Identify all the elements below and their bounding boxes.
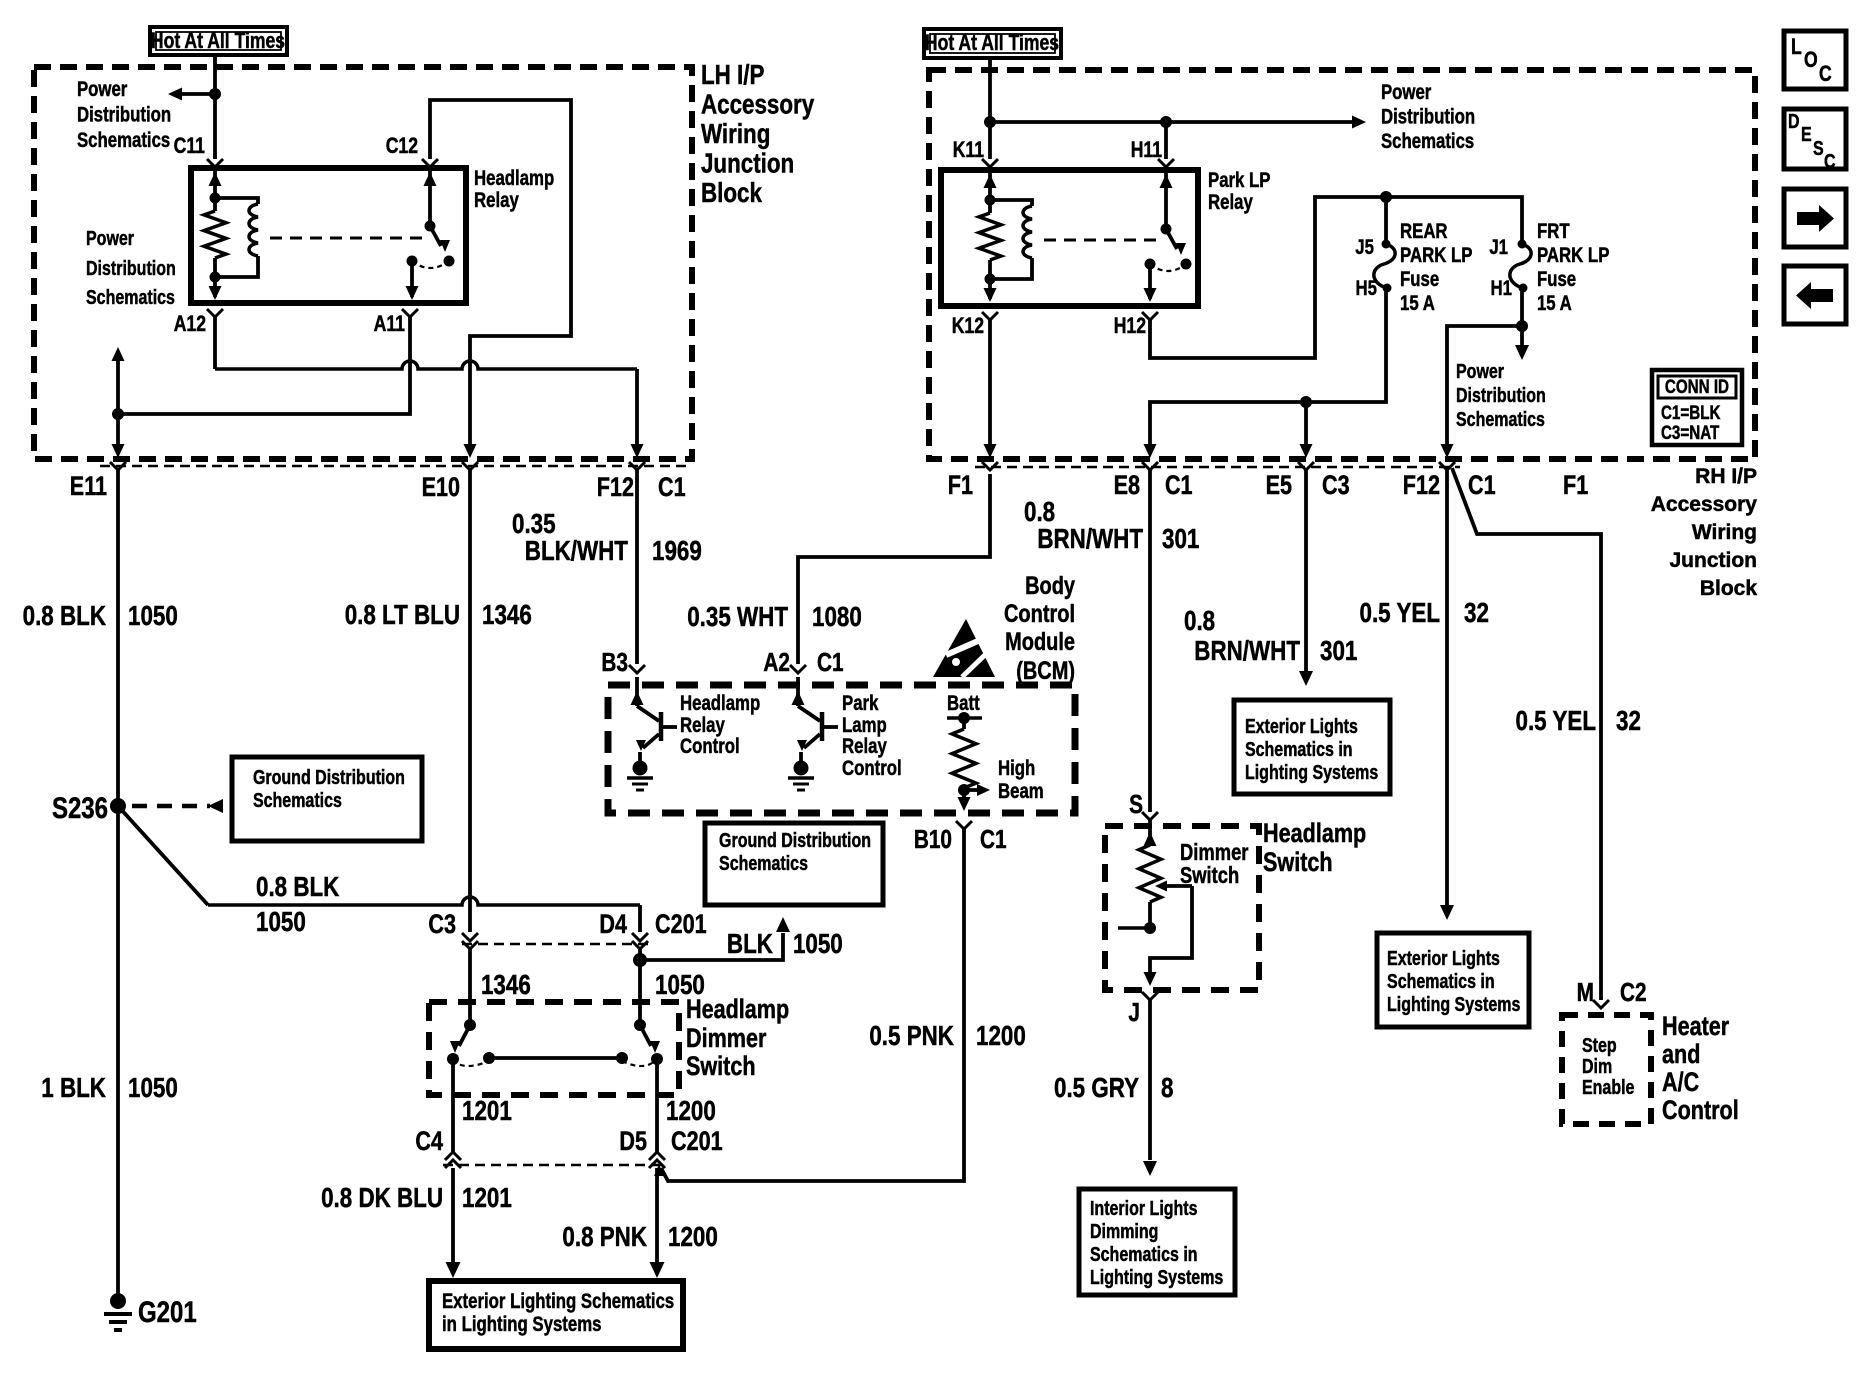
wire label BLK 1050 (D4 branch) xyxy=(727,929,843,960)
reference box Ground Distribution Schematics (middle) xyxy=(705,823,883,905)
pin label C4 xyxy=(415,1127,443,1157)
dimmer rheostat wire with up arrow xyxy=(1144,820,1157,846)
pin label H1 xyxy=(1491,277,1513,300)
wire label 1050 (S236 run) xyxy=(256,907,306,938)
svg-text:Ground Distribution: Ground Distribution xyxy=(719,829,871,851)
pin label C201 (lower) xyxy=(671,1127,723,1157)
svg-text:(BCM): (BCM) xyxy=(1016,657,1075,685)
svg-text:B3: B3 xyxy=(601,648,628,677)
fuse FRT PARK LP 15A xyxy=(1510,240,1531,293)
fuse REAR PARK LP 15A xyxy=(1374,240,1395,293)
svg-text:C201: C201 xyxy=(655,910,707,940)
text Power Distribution Schematics (top LH) xyxy=(77,78,171,152)
text Headlamp Relay Control xyxy=(680,692,760,758)
svg-text:BLK/WHT: BLK/WHT xyxy=(525,536,629,567)
svg-text:G201: G201 xyxy=(138,1294,197,1328)
svg-text:A2: A2 xyxy=(763,648,790,677)
RH relay switch pivot xyxy=(1161,224,1172,235)
svg-text:32: 32 xyxy=(1616,706,1641,737)
dimmer crossbar contact left xyxy=(483,1052,495,1064)
svg-text:F12: F12 xyxy=(1403,471,1440,501)
wire F12 straight down (0.5 YEL 32) xyxy=(1440,470,1454,920)
connector F12 (RH) xyxy=(1439,462,1455,470)
power label box 'Hot At All Times' (RH) xyxy=(924,29,1061,58)
svg-text:1050: 1050 xyxy=(256,907,306,938)
RH wire coil to K12 with down arrow xyxy=(984,279,997,302)
dimmer crossbar contact right xyxy=(616,1052,628,1064)
relay switch common from C12 with up arrow xyxy=(424,168,437,226)
pin label E11 xyxy=(70,472,107,502)
text Headlamp Relay xyxy=(474,167,554,212)
text Power Distribution Schematics (LH relay side) xyxy=(86,227,176,308)
C201 upper thin dashed line xyxy=(462,943,648,946)
title Heater and A/C Control xyxy=(1662,1012,1739,1126)
wire label 1201 (C4) xyxy=(462,1096,512,1127)
wire E5 to exterior lights box (0.8 BRN/WHT 301) xyxy=(1299,470,1313,686)
svg-text:0.35 WHT: 0.35 WHT xyxy=(687,602,788,633)
pin label B10 xyxy=(914,825,952,854)
svg-text:LH I/P: LH I/P xyxy=(701,60,765,91)
label S236 xyxy=(52,790,108,824)
pin label C1 (F12) xyxy=(1468,471,1496,501)
pin label C3 (E5) xyxy=(1322,471,1350,501)
wire C3 into dimmer switch xyxy=(468,949,472,1025)
wire B10 to D5 (0.5 PNK 1200) xyxy=(654,829,964,1181)
pin label K11 xyxy=(953,138,984,162)
wire label 1050 (D4) xyxy=(655,970,705,1001)
svg-text:O: O xyxy=(1804,48,1818,72)
wire dimmer left contact to C4 xyxy=(451,1059,455,1152)
LH junction block dashed box xyxy=(34,67,692,459)
wire label 0.5 YEL 32 (M) xyxy=(1516,706,1641,737)
svg-text:Junction: Junction xyxy=(701,148,794,179)
svg-text:B10: B10 xyxy=(914,825,952,854)
dimmer right travel arc xyxy=(622,1059,657,1066)
wire label 0.8 BRN/WHT 301 (E5) xyxy=(1184,606,1357,667)
connector H12 xyxy=(1142,312,1158,320)
svg-text:E11: E11 xyxy=(70,472,107,502)
svg-text:0.8 BLK: 0.8 BLK xyxy=(256,872,340,903)
svg-text:Schematics: Schematics xyxy=(719,852,808,874)
nav button DESC xyxy=(1784,109,1846,172)
wire label 1 BLK 1050 xyxy=(41,1073,178,1104)
wire label 0.5 YEL 32 (F12) xyxy=(1360,598,1489,629)
svg-text:Schematics: Schematics xyxy=(253,789,342,811)
wire Batt resistor to B10 with down arrow xyxy=(958,790,971,811)
pin label A12 xyxy=(174,312,206,336)
relay coil-resistor bottom junction xyxy=(210,272,221,283)
svg-text:K12: K12 xyxy=(952,314,984,338)
svg-text:Distribution: Distribution xyxy=(1381,106,1475,129)
wire label 0.5 PNK 1200 xyxy=(869,1021,1025,1052)
LH connector row thin dashed line xyxy=(100,465,690,468)
connector B3 xyxy=(629,665,645,673)
svg-text:BRN/WHT: BRN/WHT xyxy=(1037,524,1143,555)
connector C11 xyxy=(207,159,223,167)
svg-text:Dimming: Dimming xyxy=(1090,1220,1158,1242)
headlamp switch dashed box xyxy=(1105,826,1259,990)
wire dimmer right contact to D5 xyxy=(655,1059,659,1152)
wire label 1200 (D5) xyxy=(666,1096,716,1127)
svg-text:C4: C4 xyxy=(415,1127,443,1157)
svg-text:REAR: REAR xyxy=(1400,220,1448,243)
wire label 0.5 GRY 8 xyxy=(1054,1073,1173,1104)
svg-text:D4: D4 xyxy=(599,910,627,940)
svg-text:Distribution: Distribution xyxy=(86,257,176,279)
svg-text:D5: D5 xyxy=(619,1127,647,1157)
pin label B3 xyxy=(601,648,628,677)
svg-text:S: S xyxy=(1813,137,1824,159)
svg-text:C3=NAT: C3=NAT xyxy=(1661,421,1720,443)
svg-text:H11: H11 xyxy=(1131,138,1162,162)
wire E11 to S236 xyxy=(116,470,120,806)
text Step Dim Enable xyxy=(1582,1034,1634,1098)
svg-text:Lighting Systems: Lighting Systems xyxy=(1387,993,1520,1015)
pin label F1 (spare) xyxy=(1563,471,1588,501)
pin label S xyxy=(1129,790,1143,819)
svg-text:J1: J1 xyxy=(1489,236,1508,259)
svg-text:1969: 1969 xyxy=(652,536,702,567)
svg-text:and: and xyxy=(1662,1040,1700,1070)
svg-text:E5: E5 xyxy=(1266,471,1292,501)
svg-text:Power: Power xyxy=(77,78,128,101)
svg-text:8: 8 xyxy=(1161,1073,1173,1104)
ESD sensitive device symbol xyxy=(933,619,995,677)
dimmer rheostat resistor xyxy=(1139,845,1161,928)
wire H11 drop xyxy=(1164,122,1168,159)
svg-text:C3: C3 xyxy=(1322,471,1350,501)
svg-text:1050: 1050 xyxy=(793,929,843,960)
label G201 xyxy=(138,1294,197,1328)
svg-text:Distribution: Distribution xyxy=(1456,384,1546,406)
RH relay actuator dashed link xyxy=(1044,239,1158,242)
park lamp relay box xyxy=(941,170,1198,306)
reference box Ground Distribution Schematics (left) xyxy=(232,757,422,841)
svg-text:Ground Distribution: Ground Distribution xyxy=(253,766,405,788)
connector D5 of C201 xyxy=(649,1152,665,1168)
transistor Q2 park lamp relay control xyxy=(792,677,839,761)
svg-text:1346: 1346 xyxy=(482,600,532,631)
svg-text:Lighting Systems: Lighting Systems xyxy=(1245,761,1378,783)
svg-text:Enable: Enable xyxy=(1582,1076,1634,1098)
svg-text:301: 301 xyxy=(1320,636,1357,667)
svg-text:0.8: 0.8 xyxy=(1184,606,1215,637)
svg-text:Dimmer: Dimmer xyxy=(686,1024,767,1054)
text Power Distribution Schematics (top RH) xyxy=(1381,81,1475,153)
svg-text:D: D xyxy=(1788,110,1800,132)
conn id legend box xyxy=(1652,370,1742,445)
svg-text:Power: Power xyxy=(86,227,134,249)
RH junction block dashed box xyxy=(929,70,1755,459)
svg-text:Control: Control xyxy=(842,757,902,780)
svg-text:Relay: Relay xyxy=(842,735,887,758)
svg-text:Distribution: Distribution xyxy=(77,104,171,127)
pin label F12 (LH) xyxy=(597,473,634,503)
relay coil-resistor top junction xyxy=(210,193,221,204)
junction dot D4/1050 xyxy=(633,953,647,967)
svg-text:E10: E10 xyxy=(422,473,460,503)
wire label 0.35 WHT 1080 xyxy=(687,602,862,633)
step dim enable dashed box xyxy=(1562,1015,1651,1124)
dimmer right pivot xyxy=(634,1019,646,1031)
svg-text:Headlamp: Headlamp xyxy=(474,167,554,190)
svg-text:CONN ID: CONN ID xyxy=(1665,375,1729,397)
rheostat bottom junction xyxy=(1118,922,1156,934)
svg-text:Exterior Lighting Schematics: Exterior Lighting Schematics xyxy=(442,1290,674,1313)
svg-text:Beam: Beam xyxy=(998,780,1044,803)
svg-text:F12: F12 xyxy=(597,473,634,503)
relay actuator dashed link (LH) xyxy=(270,237,422,240)
svg-text:Relay: Relay xyxy=(680,714,725,737)
svg-text:S236: S236 xyxy=(52,790,108,824)
connector K11 xyxy=(982,159,998,167)
svg-text:A12: A12 xyxy=(174,312,206,336)
svg-text:S: S xyxy=(1129,790,1143,819)
svg-text:Schematics in: Schematics in xyxy=(1245,738,1353,760)
svg-text:Schematics: Schematics xyxy=(1381,130,1474,153)
svg-text:PARK LP: PARK LP xyxy=(1400,244,1473,267)
wire S236 to dimmer feed (0.8 BLK 1050) xyxy=(118,806,640,932)
dimmer right contact xyxy=(651,1053,663,1065)
headlamp relay K box xyxy=(191,168,466,303)
dashed arrow to Ground Distribution Schematics xyxy=(132,799,223,813)
svg-text:1201: 1201 xyxy=(462,1183,512,1214)
svg-text:Fuse: Fuse xyxy=(1400,268,1439,291)
RH relay NO contact xyxy=(1181,259,1192,270)
relay contact travel arc (LH) xyxy=(412,261,449,268)
svg-text:RH I/P: RH I/P xyxy=(1695,465,1757,488)
pin label J xyxy=(1128,998,1140,1027)
reference box Interior Lights Dimming Schematics in Lighting Systems xyxy=(1079,1189,1235,1295)
svg-text:F1: F1 xyxy=(948,471,973,501)
wire label 0.8 DK BLU 1201 xyxy=(321,1183,512,1214)
svg-text:C: C xyxy=(1824,150,1836,172)
junction dot FRT output xyxy=(1516,320,1528,332)
nav button next (right arrow) xyxy=(1784,189,1846,247)
svg-text:J: J xyxy=(1128,998,1140,1027)
pin label M xyxy=(1577,978,1594,1007)
junction dot E5 tap xyxy=(1300,396,1312,408)
BCM internal resistor to high beam xyxy=(952,718,976,790)
svg-text:E: E xyxy=(1801,123,1812,145)
wire Hot At All Times to K11 xyxy=(988,58,992,159)
wire H12 to fuse feed xyxy=(1150,197,1522,358)
pin label C1 (A2) xyxy=(817,648,844,677)
connector C3 of C201 xyxy=(462,933,478,949)
wire S236 to G201 xyxy=(116,806,120,1300)
connector F12 (LH) xyxy=(629,462,645,470)
wire label 1346 (C3) xyxy=(481,970,531,1001)
arrow High Beam xyxy=(964,784,990,796)
svg-text:1200: 1200 xyxy=(668,1222,718,1253)
junction dot fuse feed xyxy=(1380,191,1392,203)
relay coil (LH) xyxy=(215,198,258,277)
svg-text:Schematics: Schematics xyxy=(86,286,175,308)
connector B10 xyxy=(956,821,972,829)
svg-text:Heater: Heater xyxy=(1662,1012,1730,1042)
pin label J1 xyxy=(1489,236,1508,259)
connector E11 xyxy=(110,462,126,470)
svg-text:FRT: FRT xyxy=(1537,220,1570,243)
pin label C11 xyxy=(174,134,205,158)
svg-text:Power: Power xyxy=(1381,81,1432,104)
pin label E5 xyxy=(1266,471,1292,501)
svg-text:Schematics: Schematics xyxy=(77,129,170,152)
connector A2 xyxy=(790,665,806,673)
svg-text:C12: C12 xyxy=(386,134,418,158)
svg-text:A11: A11 xyxy=(374,312,405,336)
relay switch pivot (LH) xyxy=(425,221,436,232)
svg-text:Fuse: Fuse xyxy=(1537,268,1576,291)
pin label D5 xyxy=(619,1127,647,1157)
svg-text:A/C: A/C xyxy=(1662,1068,1699,1098)
svg-text:Interior Lights: Interior Lights xyxy=(1090,1197,1198,1219)
svg-text:C2: C2 xyxy=(1620,978,1647,1007)
wire label 0.35 BLK/WHT 1969 xyxy=(512,509,702,567)
text Park LP Relay xyxy=(1208,169,1271,214)
svg-text:Exterior Lights: Exterior Lights xyxy=(1387,947,1500,969)
wire F1(RH) to A2 (0.35 WHT 1080) xyxy=(798,474,990,664)
svg-text:Accessory: Accessory xyxy=(701,89,814,120)
svg-text:301: 301 xyxy=(1162,524,1199,555)
svg-text:Step: Step xyxy=(1582,1034,1617,1056)
RH relay coil-side wire with up arrow xyxy=(984,170,997,200)
reference box Exterior Lights Schematics in Lighting Systems (lower) xyxy=(1377,933,1529,1027)
junction dot K11 feed xyxy=(984,116,996,128)
pin label C12 xyxy=(386,134,418,158)
title LH I/P Accessory Wiring Junction Block xyxy=(701,60,814,209)
svg-text:Switch: Switch xyxy=(1263,848,1333,878)
svg-text:0.8 PNK: 0.8 PNK xyxy=(562,1222,647,1253)
svg-text:BRN/WHT: BRN/WHT xyxy=(1194,636,1300,667)
connector H11 xyxy=(1158,159,1174,167)
arrow to Power Distribution Schematics (FRT) xyxy=(1515,326,1529,360)
power label box 'Hot At All Times' (LH) xyxy=(150,27,287,55)
stub arrow up from junction xyxy=(112,347,125,414)
svg-text:Hot At All Times: Hot At All Times xyxy=(925,31,1059,55)
RH wire contact to H12 with down arrow xyxy=(1144,264,1157,302)
svg-text:1200: 1200 xyxy=(666,1096,716,1127)
connector D4 of C201 xyxy=(632,933,648,949)
pin label D4 xyxy=(599,910,627,940)
dimmer crossbar xyxy=(489,1056,622,1060)
pin label F1 (RH K12) xyxy=(948,471,973,501)
reference box Exterior Lights Schematics in Lighting Systems (upper) xyxy=(1234,700,1390,794)
svg-text:0.5 PNK: 0.5 PNK xyxy=(869,1021,954,1052)
wire coil to A12 with down arrow xyxy=(209,277,222,300)
connector A12 xyxy=(207,309,223,317)
svg-text:0.5 YEL: 0.5 YEL xyxy=(1360,598,1440,629)
Batt feed bar xyxy=(947,712,982,724)
pin label C2 xyxy=(1620,978,1647,1007)
wire label 0.8 PNK 1200 xyxy=(562,1222,717,1253)
connector E10 xyxy=(462,462,478,470)
svg-text:C11: C11 xyxy=(174,134,205,158)
svg-text:Relay: Relay xyxy=(1208,191,1253,214)
svg-text:Switch: Switch xyxy=(686,1052,756,1082)
pin label H5 xyxy=(1355,277,1377,300)
wire F12(LH) to B3 (0.35 BLK/WHT 1969) xyxy=(635,470,639,664)
connector F1 xyxy=(982,462,998,470)
RH relay resistor xyxy=(979,200,1001,279)
svg-text:Block: Block xyxy=(701,178,763,209)
svg-text:C1: C1 xyxy=(980,825,1007,854)
svg-text:Power: Power xyxy=(1456,360,1504,382)
connector K12 xyxy=(982,312,998,320)
svg-text:Dim: Dim xyxy=(1582,1055,1612,1077)
wire from Hot At All Times to C11 xyxy=(213,55,217,159)
svg-text:Block: Block xyxy=(1700,577,1758,600)
pin label E10 xyxy=(422,473,460,503)
svg-text:J5: J5 xyxy=(1355,236,1374,259)
svg-text:C1: C1 xyxy=(1468,471,1496,501)
pin label H11 xyxy=(1131,138,1162,162)
svg-text:Schematics: Schematics xyxy=(1456,408,1545,430)
dimmer right moving arm xyxy=(640,1025,660,1053)
svg-text:1346: 1346 xyxy=(481,970,531,1001)
pin label H12 xyxy=(1114,314,1146,338)
svg-text:32: 32 xyxy=(1464,598,1489,629)
svg-text:15 A: 15 A xyxy=(1537,292,1572,315)
relay switch NO contact (LH) xyxy=(444,256,455,267)
RH relay coil xyxy=(990,200,1032,279)
svg-text:Module: Module xyxy=(1005,628,1075,656)
text Power Distribution Schematics (FRT) xyxy=(1456,360,1546,430)
nav button previous (left arrow) xyxy=(1784,266,1846,324)
svg-text:C: C xyxy=(1819,62,1832,86)
wiper return wire xyxy=(1144,886,1193,986)
wire label 0.8 BRN/WHT 301 (E8) xyxy=(1024,497,1199,555)
wire C4 to exterior lighting (0.8 DK BLU 1201) xyxy=(446,1168,461,1278)
wire A12 to F12 (horizontal with hops) xyxy=(215,317,644,458)
C201 lower thin dashed line xyxy=(443,1164,665,1167)
pin label F12 (RH) xyxy=(1403,471,1440,501)
transistor Q1 headlamp relay control xyxy=(631,677,678,761)
RH relay bottom junction xyxy=(985,274,996,285)
wire D4 into dimmer switch xyxy=(638,949,642,1025)
wire label 0.8 LT BLU 1346 xyxy=(345,600,532,631)
svg-text:Control: Control xyxy=(680,735,740,758)
svg-text:High: High xyxy=(998,757,1035,780)
svg-text:C1: C1 xyxy=(1165,471,1193,501)
text Dimmer Switch (inside) xyxy=(1180,840,1248,888)
text High Beam xyxy=(998,757,1044,803)
RH relay NC contact xyxy=(1145,259,1156,270)
svg-text:Lighting Systems: Lighting Systems xyxy=(1090,1266,1223,1288)
wire FRT fuse to junction xyxy=(1520,288,1524,326)
RH relay switch common with up arrow xyxy=(1160,170,1173,229)
title RH I/P Accessory Wiring Junction Block xyxy=(1651,465,1758,600)
pin label C1 (LH) xyxy=(658,473,686,503)
title Headlamp Dimmer Switch xyxy=(686,995,789,1082)
wire D4 junction to ground reference arrow xyxy=(640,917,790,960)
svg-text:H5: H5 xyxy=(1355,277,1377,300)
text Batt xyxy=(947,692,980,715)
wire contact to A11 with down arrow xyxy=(406,261,419,300)
BCM dashed box xyxy=(608,685,1075,813)
nav button LOC xyxy=(1784,31,1846,89)
svg-text:C1=BLK: C1=BLK xyxy=(1661,401,1721,423)
text FRT PARK LP Fuse 15 A xyxy=(1537,220,1610,315)
svg-text:0.8 DK BLU: 0.8 DK BLU xyxy=(321,1183,443,1214)
svg-text:1050: 1050 xyxy=(128,601,178,632)
svg-text:E8: E8 xyxy=(1114,471,1140,501)
pin label K12 xyxy=(952,314,984,338)
svg-text:Body: Body xyxy=(1025,572,1075,600)
svg-text:1201: 1201 xyxy=(462,1096,512,1127)
wire A11 to E11 junction xyxy=(118,317,410,414)
svg-text:Junction: Junction xyxy=(1670,549,1758,572)
